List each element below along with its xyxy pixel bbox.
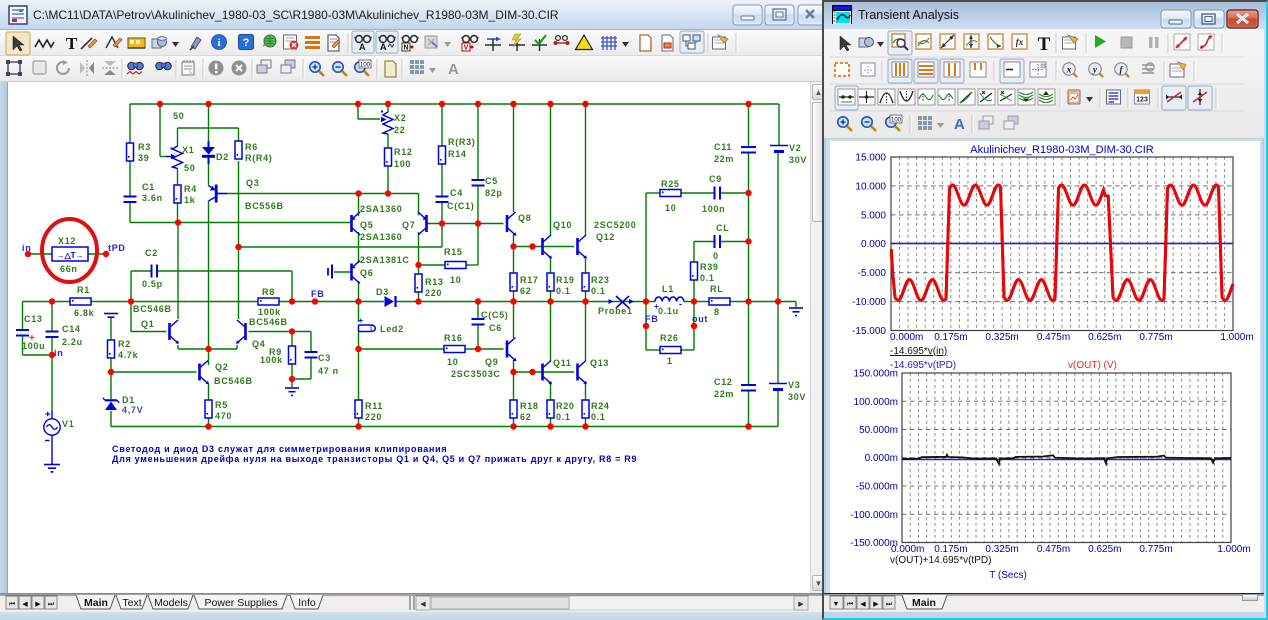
schematic canvas <box>8 82 814 593</box>
svg-text:R(R3): R(R3) <box>448 137 476 147</box>
svg-text:30V: 30V <box>789 155 807 165</box>
svg-text:BC546B: BC546B <box>214 376 253 386</box>
capacitor at Q6 base <box>328 265 332 279</box>
wire: CL/R39 snubber branch <box>694 242 749 302</box>
node FB (left) <box>311 289 324 305</box>
svg-text:-100.000m: -100.000m <box>850 510 898 521</box>
svg-text:Q11: Q11 <box>553 358 572 368</box>
resistor R11 <box>355 400 383 422</box>
svg-text:⏮: ⏮ <box>847 601 853 608</box>
wire: C2 bypass branch <box>131 271 292 302</box>
top plot legend <box>890 346 1117 371</box>
resistor R17 <box>510 273 539 296</box>
svg-text:C14: C14 <box>62 324 81 334</box>
svg-text:0.175m: 0.175m <box>934 332 967 343</box>
svg-text:Main: Main <box>912 597 936 609</box>
svg-text:10: 10 <box>447 357 458 367</box>
svg-text:BC546B: BC546B <box>133 304 172 314</box>
svg-text:▶: ▶ <box>798 601 804 608</box>
top plot red trace v(OUT) <box>891 185 1233 300</box>
resistor R6 <box>235 141 273 163</box>
svg-text:Q8: Q8 <box>518 213 531 223</box>
bottom plot black trace v(OUT)+14.695*v(tPD) <box>902 455 1231 464</box>
junction dots: lower nets <box>49 328 536 382</box>
resistor R39 <box>691 262 719 283</box>
svg-text:▼: ▼ <box>833 601 840 608</box>
resistor R18 <box>510 400 539 422</box>
left tab bar <box>0 593 822 612</box>
svg-text:0.625m: 0.625m <box>1088 544 1121 555</box>
svg-text:22m: 22m <box>714 154 734 164</box>
svg-text:10: 10 <box>450 275 461 285</box>
wire: D2 column from rail down through Q3 to Q1/Q4 emitters <box>208 104 210 365</box>
wire: Q2 emitter to R5 <box>208 384 210 427</box>
wire: R26 output sense branch <box>646 302 694 351</box>
svg-text:◀: ◀ <box>22 601 28 608</box>
svg-text:R11: R11 <box>365 401 383 411</box>
inductor L1 <box>654 284 684 316</box>
svg-text:R15: R15 <box>444 247 463 257</box>
wire: Q8 collector column <box>513 104 515 212</box>
svg-text:CL: CL <box>716 223 729 233</box>
svg-text:v(OUT)+14.695*v(tPD): v(OUT)+14.695*v(tPD) <box>890 555 991 566</box>
svg-text:RL: RL <box>710 284 723 294</box>
wire: Q8 emitter to Q10/Q12 bases <box>514 234 575 247</box>
wire: R6/Q4-collector to C4/Q7-base link <box>239 224 443 248</box>
svg-text:50: 50 <box>173 111 184 121</box>
wire: V1 to in node <box>51 355 53 410</box>
right tab bar <box>824 593 1264 612</box>
transistor Q7 <box>360 212 427 242</box>
top plot x-axis labels <box>890 332 1254 343</box>
left window title bar <box>0 0 822 30</box>
transistor Q5 <box>351 204 402 235</box>
ground below R9 <box>285 385 299 395</box>
wire: R25/C9 feedback branch <box>646 193 749 302</box>
svg-text:BC546B: BC546B <box>249 317 288 327</box>
potentiometer X2 <box>381 111 406 136</box>
svg-text:0.175m: 0.175m <box>934 544 967 555</box>
junction dots: top rail <box>157 101 752 107</box>
resistor R13 <box>415 274 444 298</box>
right window outer frame <box>822 0 1268 620</box>
svg-text:2SA1381C: 2SA1381C <box>360 255 410 265</box>
svg-text:150.000m: 150.000m <box>854 369 898 380</box>
svg-text:0.475m: 0.475m <box>1037 544 1070 555</box>
svg-text:X1: X1 <box>182 145 194 155</box>
svg-text:N: N <box>403 45 408 52</box>
svg-text:V1: V1 <box>62 419 74 429</box>
svg-text:v(OUT) (V): v(OUT) (V) <box>1068 360 1117 371</box>
svg-text:Q1: Q1 <box>141 319 154 329</box>
svg-text:T: T <box>66 34 78 53</box>
transistor Q13 <box>578 358 610 384</box>
left toolbar row 2 <box>0 56 822 82</box>
wire: R6 bottom / Q4 collector column <box>238 128 240 319</box>
wire: Q7 base to Q8 base net <box>427 223 504 225</box>
resistor R14 <box>439 137 476 164</box>
svg-text:2SA1360: 2SA1360 <box>360 204 402 214</box>
svg-text:100n: 100n <box>702 204 725 214</box>
resistor R23 <box>582 273 610 296</box>
wire: C4 column <box>441 104 443 224</box>
svg-text:R4: R4 <box>184 184 197 194</box>
svg-text:D2: D2 <box>216 152 229 162</box>
svg-text:R17: R17 <box>520 275 539 285</box>
resistor R20 <box>547 400 575 422</box>
svg-text:⏭: ⏭ <box>886 601 893 608</box>
wire: C1/R4/Q1-collector/Q5-base net <box>130 222 351 224</box>
vertical scrollbar of schematic <box>810 82 822 593</box>
capacitor C14 <box>46 324 83 347</box>
wire: Q7 collector / R13 / R15 node <box>419 232 479 302</box>
resistor R3 <box>127 142 151 163</box>
svg-text:out: out <box>692 314 708 324</box>
svg-text:BC556B: BC556B <box>245 201 284 211</box>
junction dots: bottom rail <box>205 423 751 429</box>
svg-text:4.7k: 4.7k <box>118 350 139 360</box>
svg-text:0.1: 0.1 <box>556 412 571 422</box>
svg-text:▶: ▶ <box>35 601 41 608</box>
svg-text:R6: R6 <box>245 142 258 152</box>
svg-text:FB: FB <box>311 289 324 299</box>
svg-text:0.1: 0.1 <box>591 286 606 296</box>
top plot grid <box>891 157 1233 331</box>
wire: Q11 collector column <box>550 302 552 362</box>
transistor Q8 <box>507 212 531 236</box>
wire: Q3 collector to Q5/Q7 emitters rail <box>226 194 419 216</box>
wire: Q12 collector column <box>585 104 587 236</box>
svg-text:V3: V3 <box>788 380 800 390</box>
svg-text:6.8k: 6.8k <box>74 308 95 318</box>
svg-text:⏮: ⏮ <box>9 601 15 608</box>
svg-text:in: in <box>54 348 63 358</box>
svg-text:2SC5200: 2SC5200 <box>594 220 636 230</box>
svg-text:R12: R12 <box>394 147 413 157</box>
right title bar <box>824 2 1266 29</box>
svg-text:0.1u: 0.1u <box>658 306 679 316</box>
svg-text:Q12: Q12 <box>596 232 615 242</box>
svg-text:2.2u: 2.2u <box>62 337 83 347</box>
svg-text:Probe1: Probe1 <box>598 306 633 316</box>
svg-text:Main: Main <box>84 597 108 609</box>
svg-text:C12: C12 <box>714 377 733 387</box>
svg-text:0.325m: 0.325m <box>985 544 1018 555</box>
junction dots: mid-level nets <box>175 190 752 268</box>
svg-text:100: 100 <box>394 159 411 169</box>
resistor R26 <box>660 333 681 366</box>
svg-text:C9: C9 <box>709 174 722 184</box>
capacitor C3 <box>305 352 339 376</box>
svg-text:220: 220 <box>365 412 382 422</box>
svg-text:R23: R23 <box>591 275 610 285</box>
svg-text:Q6: Q6 <box>360 268 373 278</box>
transistor Q9 <box>451 338 517 380</box>
wire: R19 emitter branch <box>550 259 552 302</box>
wire: V1 plus lead <box>51 410 53 419</box>
wire: R17 emitter branch <box>513 247 515 302</box>
svg-text:R1: R1 <box>77 285 90 295</box>
wire: C13 branch <box>23 302 53 356</box>
zener diode D1 <box>103 395 144 415</box>
wire: R3/C1 left branch column <box>129 104 131 223</box>
svg-text:Q3: Q3 <box>246 178 259 188</box>
svg-text:◀: ◀ <box>860 601 866 608</box>
resistor R15 <box>444 247 466 285</box>
svg-text:47 n: 47 n <box>318 366 339 376</box>
wire: Q9 base rail with R16/C6 <box>359 348 504 350</box>
capacitor C4 <box>436 188 475 211</box>
transistor Q11 <box>543 358 572 384</box>
svg-text:▶: ▶ <box>873 601 879 608</box>
transistor Q3 <box>209 178 284 211</box>
svg-text:100.000m: 100.000m <box>854 397 898 408</box>
top plot title <box>970 144 1153 156</box>
svg-text:R24: R24 <box>591 401 610 411</box>
delay block X12 <box>28 236 106 274</box>
svg-text:Text: Text <box>122 597 141 609</box>
svg-text:C13: C13 <box>24 314 43 324</box>
svg-text:+: + <box>359 316 364 325</box>
capacitor C1 <box>124 182 163 203</box>
transistor Q12 <box>578 220 637 259</box>
svg-text:R2: R2 <box>118 339 131 349</box>
wire: X2/R12 column <box>358 104 388 194</box>
svg-text:22: 22 <box>394 125 405 135</box>
svg-text:R3: R3 <box>138 142 151 152</box>
svg-text:FB: FB <box>645 314 658 324</box>
svg-text:→△T→: →△T→ <box>56 251 83 260</box>
svg-text:10.000: 10.000 <box>855 181 886 192</box>
LED Led2 <box>359 316 404 334</box>
svg-text:R18: R18 <box>520 401 539 411</box>
transistor Q2 <box>200 361 253 387</box>
schematic note text <box>112 444 637 464</box>
potentiometer X1 <box>166 111 195 173</box>
svg-text:A: A <box>380 42 387 52</box>
wire: Q1/Q4 emitters to current source <box>178 345 237 349</box>
wire: R23 emitter branch <box>585 259 587 302</box>
bottom plot x-axis labels <box>891 544 1251 555</box>
wire: Q5 emitter/collector column <box>358 194 360 264</box>
svg-text:62: 62 <box>520 412 531 422</box>
resistor R24 <box>582 400 610 422</box>
wire: C11/C9/CL/C12 column <box>748 104 750 427</box>
transistor Q6 <box>351 255 409 284</box>
bottom plot grid <box>902 373 1231 543</box>
diode D2 <box>202 141 229 164</box>
svg-text:C11: C11 <box>714 142 732 152</box>
svg-text:0.1: 0.1 <box>591 412 606 422</box>
svg-text:C(C5): C(C5) <box>481 310 509 320</box>
svg-text:R(R4): R(R4) <box>245 153 273 163</box>
svg-text:i: i <box>217 37 220 49</box>
svg-text:R25: R25 <box>661 179 680 189</box>
svg-text:0: 0 <box>713 251 719 261</box>
svg-text:1: 1 <box>667 356 673 366</box>
svg-text:A: A <box>448 61 459 78</box>
svg-text:C(C1): C(C1) <box>447 201 475 211</box>
svg-text:39: 39 <box>138 153 149 163</box>
junction dots: output rail <box>49 298 781 304</box>
capacitor C2 <box>142 248 163 289</box>
wire: C5 column / R15 right branch <box>477 104 479 265</box>
right toolbars <box>824 29 1264 139</box>
svg-text:Info: Info <box>298 597 316 609</box>
svg-text:tPD: tPD <box>108 243 126 253</box>
node out <box>691 314 708 329</box>
svg-text:Q9: Q9 <box>485 357 498 367</box>
svg-text:1.000m: 1.000m <box>1217 544 1250 555</box>
svg-text:in: in <box>22 243 31 253</box>
svg-text:-5.000: -5.000 <box>858 268 887 279</box>
svg-text:C:\MC11\DATA\Petrov\Akuliniche: C:\MC11\DATA\Petrov\Akulinichev_1980-03_… <box>33 8 559 22</box>
capacitor C12 <box>714 377 756 399</box>
transistor Q1 <box>133 304 179 344</box>
svg-text:0.775m: 0.775m <box>1139 332 1172 343</box>
source V1 <box>44 412 75 472</box>
ground at output <box>789 302 803 316</box>
svg-text:R16: R16 <box>444 333 463 343</box>
probe Probe1 <box>598 296 634 316</box>
wire: V2/V3 supply column <box>778 104 779 383</box>
battery V3 <box>769 380 806 402</box>
resistor R4 <box>174 184 197 205</box>
svg-text:Q5: Q5 <box>360 220 373 230</box>
svg-text:66n: 66n <box>60 264 78 274</box>
resistor R8 <box>258 287 281 317</box>
wire: Q1 base from R1 node <box>131 302 167 332</box>
svg-text:100k: 100k <box>260 355 283 365</box>
svg-text:10: 10 <box>665 203 676 213</box>
bottom frame band <box>0 612 822 620</box>
svg-text:Q7: Q7 <box>402 220 415 230</box>
svg-text:0.000m: 0.000m <box>865 453 898 464</box>
svg-text:4,7V: 4,7V <box>122 405 143 415</box>
svg-text:0.325m: 0.325m <box>985 332 1018 343</box>
svg-text:30V: 30V <box>788 392 806 402</box>
svg-text:22m: 22m <box>714 389 734 399</box>
ground above R2 <box>104 314 118 318</box>
svg-text:Models: Models <box>154 597 188 609</box>
transient analysis icon <box>832 5 852 24</box>
svg-text:Q10: Q10 <box>553 220 572 230</box>
svg-text:X12: X12 <box>58 236 76 246</box>
wire: Q9 emitter to Q11/Q13 bases <box>514 360 575 372</box>
transistor Q10 <box>543 220 573 259</box>
wire: main output/FB horizontal rail <box>23 301 797 303</box>
node tPD <box>103 243 126 257</box>
wire: X1 wiper tap from rail <box>160 104 166 157</box>
svg-text:Q13: Q13 <box>590 358 609 368</box>
svg-text:100k: 100k <box>258 307 281 317</box>
node in (at C14) <box>54 348 63 358</box>
svg-text:V: V <box>464 45 469 52</box>
svg-text:5.000: 5.000 <box>861 210 886 221</box>
plot page <box>830 141 1260 593</box>
svg-text:62: 62 <box>520 286 531 296</box>
transistor Q4 <box>236 317 288 349</box>
svg-text:15.000: 15.000 <box>855 153 886 164</box>
svg-text:D3: D3 <box>376 287 389 297</box>
svg-text:-: - <box>679 299 683 309</box>
svg-text:220: 220 <box>425 288 442 298</box>
document icon <box>9 6 27 24</box>
svg-text:1k: 1k <box>184 195 196 205</box>
highlight ellipse around X12 <box>42 219 97 282</box>
svg-text:?: ? <box>243 37 250 49</box>
bottom plot y-axis labels <box>850 369 898 550</box>
wire: R2 / D1 / Q2 base column <box>111 318 197 427</box>
wire: C6 branch <box>477 302 479 350</box>
svg-text:+: + <box>29 333 36 344</box>
resistor R25 <box>660 179 681 213</box>
svg-text:R13: R13 <box>425 277 444 287</box>
svg-text:Led2: Led2 <box>380 324 404 334</box>
wire: Q13 collector column <box>585 302 587 362</box>
svg-text:100: 100 <box>360 63 371 69</box>
svg-text:Светодод и диод D3 служат для: Светодод и диод D3 служат для симметриро… <box>112 444 447 454</box>
svg-text:50.000m: 50.000m <box>859 425 898 436</box>
diode D3 <box>376 287 396 307</box>
capacitor C9 <box>702 174 725 214</box>
window frame band left <box>0 82 8 612</box>
svg-text:D1: D1 <box>122 395 135 405</box>
wire: negative supply bottom rail <box>111 391 778 427</box>
resistor R1 <box>70 285 95 318</box>
svg-text:50: 50 <box>184 163 195 173</box>
svg-text:0.475m: 0.475m <box>1037 332 1070 343</box>
svg-text:2SA1360: 2SA1360 <box>360 232 402 242</box>
wire: Q10 collector column <box>550 104 552 236</box>
wire: Q6 base branch <box>334 271 352 273</box>
left toolbar row 1 <box>0 30 822 56</box>
wire: Q9 collector column <box>513 302 515 339</box>
top plot blue trace -14.695*v(tPD) <box>892 186 1234 301</box>
wire: R24 branch <box>585 384 587 427</box>
wire: Q6 collector / Led2 / R11 column <box>358 281 360 427</box>
svg-text:C5: C5 <box>485 176 498 186</box>
svg-text:X2: X2 <box>394 113 406 123</box>
svg-text:2SC3503C: 2SC3503C <box>451 369 501 379</box>
resistor R16 <box>444 333 465 367</box>
svg-text:⏭: ⏭ <box>48 601 55 608</box>
top plot blue zero line <box>891 242 1233 244</box>
svg-text:C4: C4 <box>450 188 463 198</box>
svg-text:Power Supplies: Power Supplies <box>205 597 278 609</box>
svg-text:R20: R20 <box>556 401 575 411</box>
svg-text:0.1: 0.1 <box>700 273 715 283</box>
resistor R12 <box>385 147 413 169</box>
top plot y-axis labels <box>852 153 886 338</box>
svg-text:C6: C6 <box>489 323 502 333</box>
svg-text:0.000m: 0.000m <box>891 544 924 555</box>
capacitor C5 <box>472 176 503 198</box>
capacitor C6 <box>472 310 509 333</box>
wire: Q1 collector column <box>177 223 179 320</box>
svg-text:R5: R5 <box>215 400 228 410</box>
bottom plot legend <box>890 555 1027 581</box>
svg-text:V2: V2 <box>789 143 801 153</box>
svg-text:0.625m: 0.625m <box>1088 332 1121 343</box>
wire: Q4 base / R9 / C3 node <box>249 332 312 386</box>
svg-text:R8: R8 <box>262 287 275 297</box>
svg-text:0.1: 0.1 <box>556 286 571 296</box>
svg-text:-10.000: -10.000 <box>852 297 886 308</box>
svg-text:-50.000m: -50.000m <box>856 482 898 493</box>
svg-text:3.6n: 3.6n <box>142 193 163 203</box>
svg-text:0.000m: 0.000m <box>890 332 923 343</box>
